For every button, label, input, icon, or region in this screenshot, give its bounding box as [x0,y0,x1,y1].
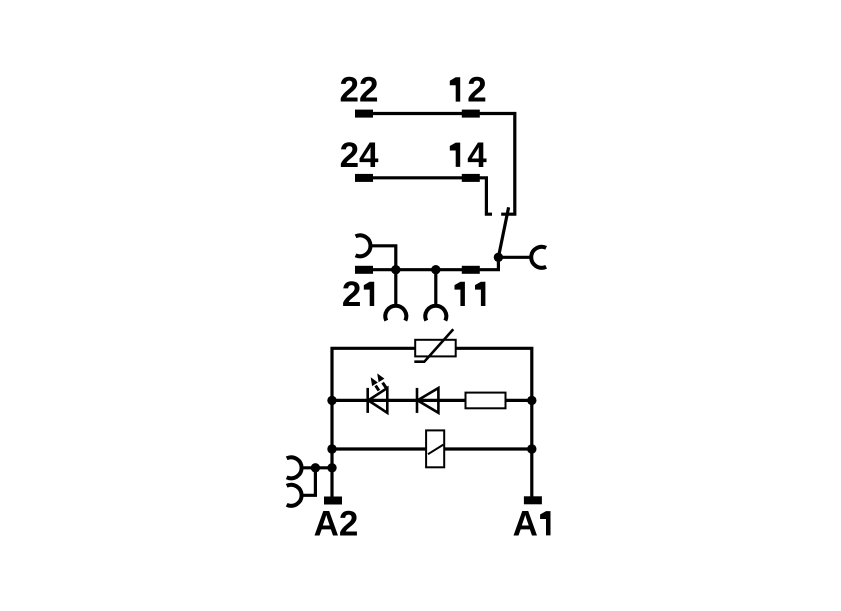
svg-text:22: 22 [340,71,379,110]
svg-text:2: 2 [467,71,486,110]
svg-text:A: A [513,504,538,543]
svg-text:A2: A2 [314,504,359,543]
svg-text:2: 2 [342,275,361,314]
svg-text:4: 4 [467,136,487,175]
svg-text:24: 24 [340,136,379,175]
